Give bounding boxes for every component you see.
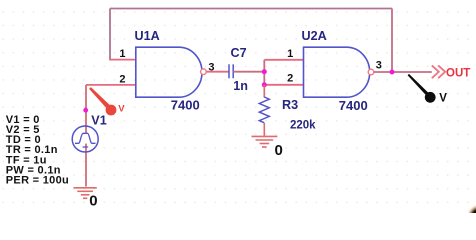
voltage marker V (red) at U1A input	[89, 87, 125, 115]
svg-text:7400: 7400	[171, 97, 200, 112]
resistor R3	[259, 97, 269, 123]
output bubble U2A	[368, 69, 374, 75]
wire: top feedback horizontal from U2A output back to U1A input	[110, 8, 392, 10]
voltage marker V (black) at OUT	[408, 74, 448, 105]
wire: node A vertical tying U2A pins	[263, 60, 265, 85]
svg-text:3: 3	[376, 59, 382, 71]
svg-text:0: 0	[275, 142, 283, 159]
wire: C7 to node A	[233, 71, 264, 73]
wire: into U1A pin 1	[109, 59, 136, 61]
off-page connector OUT (chevrons)	[432, 65, 445, 78]
ground 0 (under V1)	[74, 188, 97, 199]
parameter list of V1	[6, 114, 69, 187]
NAND gate U2A body	[304, 47, 370, 97]
wire: into U2A pin 2	[264, 84, 303, 86]
junction above V1	[83, 108, 88, 113]
svg-text:PER = 100u: PER = 100u	[6, 175, 69, 187]
wire: V1 vertical lower (pulse symbol down to ground)	[85, 144, 87, 187]
svg-text:1: 1	[119, 48, 125, 60]
svg-text:R3: R3	[282, 98, 298, 112]
svg-text:V: V	[439, 92, 447, 104]
svg-text:U1A: U1A	[135, 29, 160, 43]
svg-text:0: 0	[89, 192, 97, 209]
svg-text:2: 2	[119, 74, 125, 86]
wire: node A down to R3	[263, 85, 265, 98]
wire: left vertical of feedback down to pin 1 of U1A	[109, 9, 111, 60]
junction node A upper	[262, 69, 267, 74]
wire: right vertical of feedback down to U2A output node	[391, 9, 393, 73]
svg-text:1n: 1n	[233, 79, 248, 93]
wire: into U2A pin 1	[264, 59, 303, 61]
svg-text:2: 2	[287, 73, 293, 85]
svg-text:V: V	[118, 104, 125, 115]
NAND gate U1A body	[136, 47, 202, 97]
junction at U2A output	[390, 70, 395, 75]
ground 0 (under R3)	[252, 123, 278, 147]
svg-text:1: 1	[287, 48, 293, 60]
junction node A lower	[262, 82, 267, 87]
svg-text:7400: 7400	[339, 98, 368, 113]
svg-text:OUT: OUT	[446, 67, 470, 79]
output bubble U1A	[201, 69, 207, 75]
corner artifact bottom-right	[466, 204, 476, 230]
svg-text:V1: V1	[91, 113, 106, 127]
svg-text:U2A: U2A	[302, 29, 327, 43]
svg-text:3: 3	[208, 61, 214, 73]
svg-text:220k: 220k	[290, 120, 316, 132]
pulse source V1	[72, 126, 98, 152]
wire: from V1 top corner into U1A pin 2	[86, 84, 136, 86]
wire: U2A pin 3 to OUT	[374, 71, 432, 73]
capacitor C7	[229, 64, 233, 78]
wire: V1 vertical upper (corner down to pulse symbol)	[85, 85, 87, 133]
svg-text:C7: C7	[231, 46, 247, 60]
wire: U1A pin 3 to C7	[206, 71, 229, 73]
